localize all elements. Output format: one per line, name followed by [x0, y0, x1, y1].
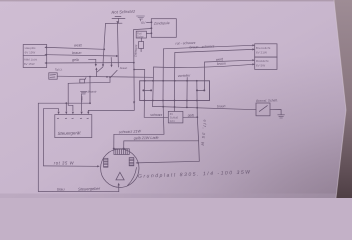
svg-text:Schluß: Schluß	[170, 115, 179, 119]
wire left drop from node to dimmer switch	[103, 24, 106, 65]
wire switch bus horizontal	[57, 76, 153, 77]
distributor vertical v1	[143, 70, 146, 118]
stator top coil L1	[114, 149, 129, 155]
wire rot-schwarz to brake lamp	[163, 45, 252, 49]
svg-text:Zündspule: Zündspule	[153, 21, 170, 26]
paper right edge highlight	[334, 0, 346, 198]
ground G3 at brake switch	[278, 115, 285, 118]
terminal bars (connector) under Rot Schwarz label	[112, 17, 125, 19]
wire lower bus right up	[109, 77, 111, 82]
arrowhead braun end	[116, 55, 118, 57]
headlight box divider	[23, 54, 47, 56]
svg-text:Steuergeber: Steuergeber	[78, 186, 101, 192]
node bar with down arrow	[106, 22, 123, 24]
junction at coil terminal 1	[113, 148, 115, 150]
arrowhead up	[95, 67, 97, 69]
ignition switch box small	[49, 73, 57, 79]
wire pin2 drop	[65, 103, 67, 111]
wire braun-schwarz to brake lamp	[175, 49, 253, 52]
brake light switch S2 box	[256, 103, 270, 116]
svg-text:6V 21W: 6V 21W	[256, 51, 267, 55]
pin number marks	[57, 117, 88, 119]
arrow pin3	[72, 112, 74, 115]
arrow into headlight pin2	[44, 54, 46, 56]
svg-text:schwarz 21W: schwarz 21W	[119, 129, 142, 134]
control unit feed wire upper	[38, 102, 90, 104]
stator right coil L3	[129, 158, 134, 166]
arrowhead joint on schwarz net	[133, 102, 135, 105]
svg-text:braun: braun	[120, 66, 128, 70]
svg-text:Schw: Schw	[137, 34, 143, 38]
junction coil pin3	[151, 32, 153, 34]
magneto stator circle (Grundplatte)	[101, 149, 139, 187]
delta symbol inside stator	[116, 172, 124, 180]
wire schwarz21W drop to stator coil	[113, 134, 115, 148]
wire schwarz 21W	[114, 133, 164, 135]
svg-text:gelb: gelb	[72, 58, 79, 62]
link right dots	[196, 89, 198, 91]
distributor bottom edge junction dots	[144, 100, 198, 102]
tail lamp box (Rücklicht)	[255, 57, 277, 69]
junction gelb tee	[196, 116, 198, 118]
ground G2 above pin4	[81, 92, 87, 94]
tick above connector	[85, 78, 86, 80]
arrows into tail lamp	[252, 59, 254, 61]
arrowhead dimmer contact left	[102, 64, 104, 67]
wire pin4 from ground	[81, 94, 83, 111]
wire HV box down	[140, 38, 142, 42]
arrowhead middle contact	[110, 65, 112, 68]
dimmer switch middle contact	[110, 58, 112, 66]
svg-text:Bremslicht: Bremslicht	[256, 46, 271, 50]
ignition coil U1 (Zündspule) box	[151, 19, 176, 38]
wire below suppressor	[140, 48, 142, 51]
control unit box U2 (Steuergerät)	[55, 115, 92, 138]
distributor vertical v7 weiss drop	[203, 62, 205, 90]
wire coil pin2 to schwarz net	[134, 29, 152, 30]
svg-text:Hauptlic.: Hauptlic.	[25, 46, 37, 50]
arrow pin1	[58, 112, 60, 115]
distributor internal link left	[143, 89, 151, 91]
wire weiss headlight	[47, 47, 104, 49]
junction coil pin1	[151, 21, 153, 23]
svg-text:6V 5W: 6V 5W	[256, 64, 265, 68]
svg-text:Tgl.Lt.: Tgl.Lt.	[55, 67, 63, 71]
headlight box (Hauptlicht/Abblendlicht)	[23, 45, 47, 68]
svg-text:Masse: Masse	[88, 89, 97, 93]
brake lamp box (Bremslicht)	[255, 44, 277, 57]
distributor vertical v3 rot-schwarz drop	[163, 49, 164, 135]
control unit feed wire lower	[44, 109, 59, 112]
wire braun headlight	[47, 55, 117, 56]
arrow into headlight pin3	[44, 62, 46, 64]
connector box tiny on lower bus	[80, 79, 85, 83]
svg-text:6V: 6V	[141, 21, 146, 25]
junction gelb on schwarz net	[133, 62, 135, 64]
junction pin2 feed	[65, 102, 67, 104]
junction bus x90	[89, 76, 91, 78]
distributor vertical v4 braun-schwarz drop	[173, 53, 175, 112]
arrow up on switch bus	[95, 69, 97, 76]
svg-text:rot 35 W: rot 35 W	[54, 161, 75, 166]
dimmer switch S1 contact stub left	[89, 59, 96, 64]
handwriting swash before title	[128, 168, 137, 186]
ground G1 top	[137, 16, 145, 21]
distributor vertical v2 with weiss top corner	[152, 67, 153, 106]
svg-text:schwarz: schwarz	[150, 113, 162, 117]
wire braun to brake switch	[152, 106, 256, 109]
junction bus x110	[109, 76, 111, 78]
pilot lamp box 6V	[168, 111, 183, 123]
wire x90 drop to control wire	[89, 77, 91, 104]
arrowhead rot into stator	[97, 165, 100, 167]
wire brake switch to ground	[270, 110, 281, 115]
junction braun wire crossings	[162, 106, 198, 109]
wire gelb from pilot box	[183, 116, 197, 118]
arrowhead contact	[95, 64, 97, 67]
svg-text:blau: blau	[80, 97, 84, 103]
arrowhead into right coil	[136, 162, 139, 164]
distributor vertical v5	[186, 78, 188, 107]
arrow pin2	[65, 112, 67, 115]
svg-text:licht: licht	[170, 119, 175, 123]
svg-text:gelb: gelb	[188, 113, 194, 117]
wire gelb 21W	[124, 140, 199, 142]
HV label box Rot/Schw	[136, 31, 146, 38]
dimmer switch blade 1	[97, 67, 103, 72]
svg-text:verteiler: verteiler	[178, 74, 191, 78]
wire rot 35W	[44, 165, 98, 167]
svg-text:gelb 21W Lade: gelb 21W Lade	[134, 136, 159, 141]
arrow into headlight pin1	[44, 46, 46, 48]
brake switch blade	[259, 106, 267, 112]
dimmer switch blade 2	[110, 70, 117, 77]
stub bars to node	[117, 19, 119, 24]
wire weiss to tail lamp	[205, 60, 253, 62]
distributor internal link right	[197, 89, 205, 91]
svg-text:braun: braun	[217, 62, 226, 66]
paper top edge shadow	[0, 0, 352, 1]
junction coil pin2	[151, 27, 153, 29]
distributor block (Verteiler)	[140, 81, 210, 101]
svg-text:blau: blau	[57, 186, 65, 191]
distributor vertical v6 long	[197, 81, 200, 162]
stator left coil L2	[104, 158, 108, 167]
wire gelb21W drop to stator coil	[123, 141, 125, 149]
svg-text:Abbl.Licht: Abbl.Licht	[24, 58, 37, 62]
svg-text:weiß: weiß	[74, 44, 83, 48]
wire braun to tail lamp	[154, 64, 253, 67]
junction x90 bottom	[89, 102, 91, 104]
paper bottom shadow	[0, 194, 340, 199]
junction bus x107	[106, 76, 108, 78]
arrow pin4	[81, 112, 83, 115]
wire schwarz to lamp box 6V	[144, 116, 168, 118]
svg-text:braun: braun	[217, 104, 226, 108]
wire lower bus	[68, 82, 110, 83]
svg-text:Bremsl. Schalt.: Bremsl. Schalt.	[256, 98, 278, 103]
wire blau Steuergeber	[38, 185, 119, 192]
distributor top edge junction dots	[144, 80, 198, 82]
svg-text:6V 15W: 6V 15W	[24, 62, 35, 66]
svg-text:Steuergerät: Steuergerät	[57, 130, 81, 136]
wire left drop to blau	[37, 103, 39, 191]
wire coil pin3 to HV label box	[146, 32, 151, 34]
table surface beyond right paper edge	[334, 0, 352, 198]
arrow into node	[116, 21, 119, 23]
junction weiss on left drop	[103, 48, 105, 50]
suppressor resistor R1 (spark plug connector)	[139, 42, 144, 49]
wire ground stub to coil pin1	[147, 21, 152, 23]
link left dots	[142, 89, 144, 91]
wire right coil to v6	[136, 161, 199, 163]
wire left drop to rot	[43, 109, 45, 166]
svg-text:braun: braun	[72, 51, 81, 55]
schwarz net vertical	[133, 30, 136, 111]
wire pin5 feed	[88, 109, 134, 111]
arrowhead blau into stator	[118, 183, 120, 186]
junction schwarz net to distributor branch	[133, 69, 135, 71]
svg-text:Rücklicht: Rücklicht	[256, 59, 269, 63]
scribble inside ignition switch box	[50, 75, 56, 78]
wire pin5 stub	[87, 110, 89, 111]
wire branch to distributor v1	[134, 69, 145, 71]
svg-text:6V: 6V	[170, 112, 173, 116]
wire right drop from node to dimmer switch	[117, 23, 120, 67]
junction at coil terminal 2	[123, 148, 125, 150]
arrow pin5	[87, 112, 89, 115]
svg-text:6V 15W: 6V 15W	[25, 50, 36, 54]
arrows into brake lamp	[252, 44, 254, 46]
wire gelb headlight	[47, 62, 134, 64]
wire lower bus left corner down	[68, 83, 73, 111]
